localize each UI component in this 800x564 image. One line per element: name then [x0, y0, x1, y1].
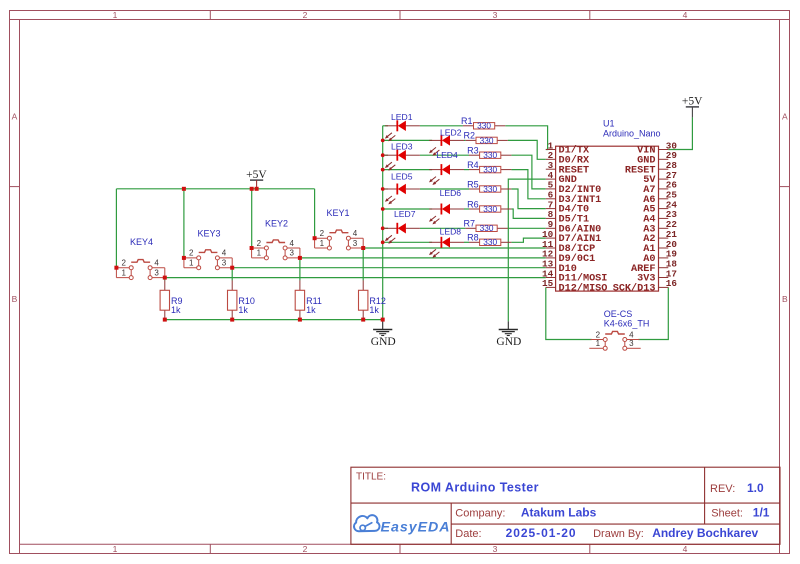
svg-text:A: A — [782, 112, 788, 122]
node KEY1 pin3 — [361, 246, 365, 250]
wire LED3 cathode — [383, 154, 388, 156]
wire +5V bus to KEY3 pin2 — [183, 189, 185, 258]
resistor R2 — [463, 131, 507, 146]
resistor R3 — [467, 146, 511, 161]
resistor R5 — [467, 179, 511, 194]
LED LED6 — [429, 188, 464, 225]
node KEY3 pin3 — [230, 266, 234, 270]
node LED bus row 7 — [381, 226, 385, 230]
wire U1 GND to ground — [508, 179, 546, 321]
resistor R11 — [295, 280, 322, 319]
svg-text:1: 1 — [596, 339, 601, 348]
svg-text:B: B — [12, 294, 18, 304]
svg-text:REV:: REV: — [710, 483, 735, 495]
node bus-KEY2 — [250, 187, 254, 191]
svg-text:3: 3 — [493, 10, 498, 20]
wire LED cathode bus — [382, 126, 384, 320]
svg-text:330: 330 — [480, 135, 494, 145]
node R bottom 165 — [163, 318, 167, 322]
svg-text:1k: 1k — [171, 305, 181, 315]
wire pull-down GND bus — [165, 319, 383, 321]
svg-text:Andrey Bochkarev: Andrey Bochkarev — [652, 526, 758, 540]
svg-text:4: 4 — [289, 239, 294, 248]
svg-text:B: B — [782, 294, 788, 304]
svg-text:330: 330 — [483, 165, 497, 175]
node GND junction — [381, 318, 385, 322]
svg-text:TITLE:: TITLE: — [356, 472, 386, 483]
svg-text:3: 3 — [222, 259, 227, 268]
svg-text:15: 15 — [542, 278, 554, 289]
wire R6 to U1 pin — [511, 209, 545, 218]
svg-text:GND: GND — [496, 336, 521, 348]
LED LED2 — [429, 127, 464, 155]
wire R2 to U1 pin — [508, 140, 546, 159]
svg-text:1k: 1k — [369, 305, 379, 315]
ground GND1 — [373, 321, 392, 335]
pushbutton KEY4 — [116, 260, 164, 280]
resistor R7 — [463, 219, 507, 234]
svg-text:Drawn By:: Drawn By: — [593, 528, 644, 540]
node R bottom 363 — [361, 318, 365, 322]
svg-text:Atakum Labs: Atakum Labs — [521, 506, 597, 520]
wire LED3 anode to R3 — [420, 154, 469, 156]
svg-text:2: 2 — [257, 239, 262, 248]
pushbutton KEY3 — [184, 250, 232, 270]
svg-text:U1: U1 — [603, 119, 615, 129]
svg-text:2025-01-20: 2025-01-20 — [506, 526, 576, 540]
svg-text:4: 4 — [683, 10, 688, 20]
resistor R10 — [228, 280, 255, 319]
wire LED2 anode to R2 — [464, 139, 465, 141]
svg-text:KEY4: KEY4 — [130, 237, 153, 247]
wire KEY3 pin3 to R10 — [231, 268, 233, 281]
resistor R6 — [467, 199, 511, 214]
svg-text:Company:: Company: — [455, 508, 505, 520]
wire R3 to U1 pin — [511, 155, 545, 189]
svg-text:2: 2 — [596, 330, 601, 339]
svg-text:LED3: LED3 — [391, 142, 413, 152]
svg-text:1: 1 — [113, 10, 118, 20]
svg-text:R3: R3 — [467, 146, 479, 156]
svg-text:4: 4 — [222, 249, 227, 258]
node KEY3 pin2 — [182, 256, 186, 260]
svg-text:R2: R2 — [463, 131, 475, 141]
LED LED4 — [429, 150, 464, 185]
svg-text:1/1: 1/1 — [753, 506, 770, 520]
node LED bus row 4 — [381, 168, 385, 172]
node LED bus row 3 — [381, 153, 385, 157]
svg-text:R7: R7 — [463, 219, 475, 229]
svg-text:1: 1 — [320, 239, 325, 248]
svg-text:D12/MISO: D12/MISO — [559, 283, 608, 295]
svg-text:LED5: LED5 — [391, 171, 413, 181]
svg-text:LED6: LED6 — [440, 188, 462, 198]
svg-text:2: 2 — [303, 544, 308, 554]
svg-text:R5: R5 — [467, 179, 479, 189]
svg-text:A: A — [12, 112, 18, 122]
svg-text:LED1: LED1 — [391, 112, 413, 122]
svg-text:3: 3 — [289, 249, 294, 258]
wire LED7 anode to R7 — [420, 227, 466, 229]
svg-text:+5V: +5V — [246, 169, 267, 181]
svg-text:1k: 1k — [238, 305, 248, 315]
svg-text:R4: R4 — [467, 160, 479, 170]
svg-text:Sheet:: Sheet: — [711, 508, 743, 520]
node R bottom 300 — [298, 318, 302, 322]
resistor R1 — [461, 116, 505, 131]
node KEY2 pin3 — [298, 256, 302, 260]
wire U1 D12/MISO to OE-CS pin2 — [546, 287, 592, 339]
svg-text:EasyEDA: EasyEDA — [381, 520, 450, 536]
wire LED2 cathode — [383, 139, 432, 141]
LED LED5 — [385, 171, 420, 204]
svg-text:330: 330 — [483, 150, 497, 160]
node KEY1 pin2 — [313, 236, 317, 240]
svg-text:330: 330 — [483, 237, 497, 247]
node KEY2 pin2 — [250, 246, 254, 250]
node bus-+5V — [255, 187, 259, 191]
resistor R9 — [160, 280, 182, 319]
svg-text:LED8: LED8 — [440, 226, 462, 236]
svg-text:3: 3 — [353, 239, 358, 248]
node LED bus row 2 — [381, 139, 385, 143]
wire KEY2 pin3 to U1 D9/0C1 — [300, 257, 546, 259]
node LED bus row 8 — [381, 240, 385, 244]
wire LED4 cathode — [383, 169, 432, 171]
wire R1 to U1 pin — [505, 126, 547, 150]
resistor R8 — [467, 233, 511, 248]
pushbutton OE-CS — [589, 331, 640, 350]
svg-text:R6: R6 — [467, 199, 479, 209]
svg-text:KEY2: KEY2 — [265, 219, 288, 229]
svg-text:4: 4 — [683, 544, 688, 554]
svg-text:SCK/D13: SCK/D13 — [613, 283, 656, 295]
svg-text:Arduino_Nano: Arduino_Nano — [603, 129, 661, 139]
svg-text:1.0: 1.0 — [747, 481, 764, 495]
svg-text:330: 330 — [480, 223, 494, 233]
svg-text:3: 3 — [154, 268, 159, 277]
svg-text:LED4: LED4 — [436, 150, 458, 160]
svg-text:1: 1 — [257, 249, 262, 258]
svg-text:ROM Arduino Tester: ROM Arduino Tester — [411, 481, 539, 495]
svg-text:Date:: Date: — [455, 528, 481, 540]
LED LED3 — [385, 142, 420, 171]
wire LED7 cathode — [383, 227, 388, 229]
wire KEY4 pin3 to U1 D11/MOSI — [165, 277, 546, 279]
node R bottom 232 — [230, 318, 234, 322]
svg-text:GND: GND — [371, 336, 396, 348]
svg-text:4: 4 — [154, 259, 159, 268]
wire KEY1 pin3 to U1 D8/ICP — [363, 247, 546, 249]
wire U1 SCK/D13 to OE-CS pin4 — [638, 287, 668, 339]
svg-text:1: 1 — [189, 259, 194, 268]
node KEY4 pin3 — [163, 276, 167, 280]
svg-text:16: 16 — [666, 278, 678, 289]
wire KEY3 pin3 to U1 D10 — [232, 267, 546, 269]
svg-text:R1: R1 — [461, 116, 473, 126]
pushbutton KEY2 — [252, 240, 300, 260]
svg-text:1: 1 — [121, 268, 126, 277]
resistor R12 — [359, 280, 386, 319]
svg-text:KEY3: KEY3 — [198, 229, 221, 239]
svg-text:330: 330 — [483, 184, 497, 194]
svg-text:KEY1: KEY1 — [327, 208, 350, 218]
svg-text:1k: 1k — [306, 305, 316, 315]
EasyEDA logo — [354, 515, 449, 535]
wire R4 to U1 pin — [511, 170, 545, 199]
ground GND2 — [499, 321, 518, 335]
title block — [351, 467, 780, 544]
svg-text:3: 3 — [629, 339, 634, 348]
wire R8 to U1 pin — [511, 238, 545, 242]
LED LED8 — [429, 226, 464, 257]
svg-text:330: 330 — [477, 121, 491, 131]
wire LED5 anode to R5 — [420, 188, 469, 190]
wire +5V bus — [116, 188, 314, 190]
svg-text:1: 1 — [113, 544, 118, 554]
svg-text:K4-6x6_TH: K4-6x6_TH — [604, 318, 650, 328]
pushbutton KEY1 — [315, 230, 364, 250]
svg-text:LED7: LED7 — [394, 209, 416, 219]
svg-text:4: 4 — [353, 229, 358, 238]
wire +5V bus to KEY2 pin2 — [251, 189, 253, 248]
wire LED4 anode to R4 — [464, 169, 469, 171]
wire LED1 anode to R1 — [420, 125, 463, 127]
wire LED1 cathode — [383, 125, 388, 127]
wire +5V to U1 VIN — [668, 117, 692, 149]
wire LED6 cathode — [383, 208, 432, 210]
node bus-KEY3 — [182, 187, 186, 191]
svg-text:330: 330 — [483, 204, 497, 214]
svg-text:LED2: LED2 — [440, 127, 462, 137]
resistor R4 — [467, 160, 511, 175]
wire LED8 anode to R8 — [464, 241, 469, 243]
svg-text:2: 2 — [320, 229, 325, 238]
svg-text:2: 2 — [303, 10, 308, 20]
wire LED8 cathode — [383, 241, 432, 243]
wire R7 to U1 pin — [508, 227, 546, 229]
wire +5V bus to KEY1 pin2 — [314, 189, 316, 238]
wire R5 to U1 pin — [511, 189, 545, 209]
svg-text:2: 2 — [189, 249, 194, 258]
wire KEY1 pin3 to R12 — [362, 248, 364, 280]
svg-text:+5V: +5V — [682, 96, 703, 108]
wire LED5 cathode — [383, 188, 388, 190]
svg-text:R8: R8 — [467, 233, 479, 243]
svg-text:4: 4 — [629, 330, 634, 339]
svg-text:3: 3 — [493, 544, 498, 554]
wire KEY4 pin3 to R9 — [164, 278, 166, 281]
wire +5V bus to KEY4 pin2 — [115, 189, 117, 268]
LED LED7 — [385, 209, 420, 244]
node KEY4 pin2 — [114, 266, 118, 270]
LED LED1 — [385, 112, 420, 141]
svg-text:2: 2 — [121, 259, 126, 268]
wire LED6 anode to R6 — [464, 208, 469, 210]
node LED bus row 6 — [381, 207, 385, 211]
wire KEY2 pin3 to R11 — [299, 258, 301, 281]
node LED bus row 5 — [381, 187, 385, 191]
IC U1 Arduino_Nano — [542, 119, 677, 295]
